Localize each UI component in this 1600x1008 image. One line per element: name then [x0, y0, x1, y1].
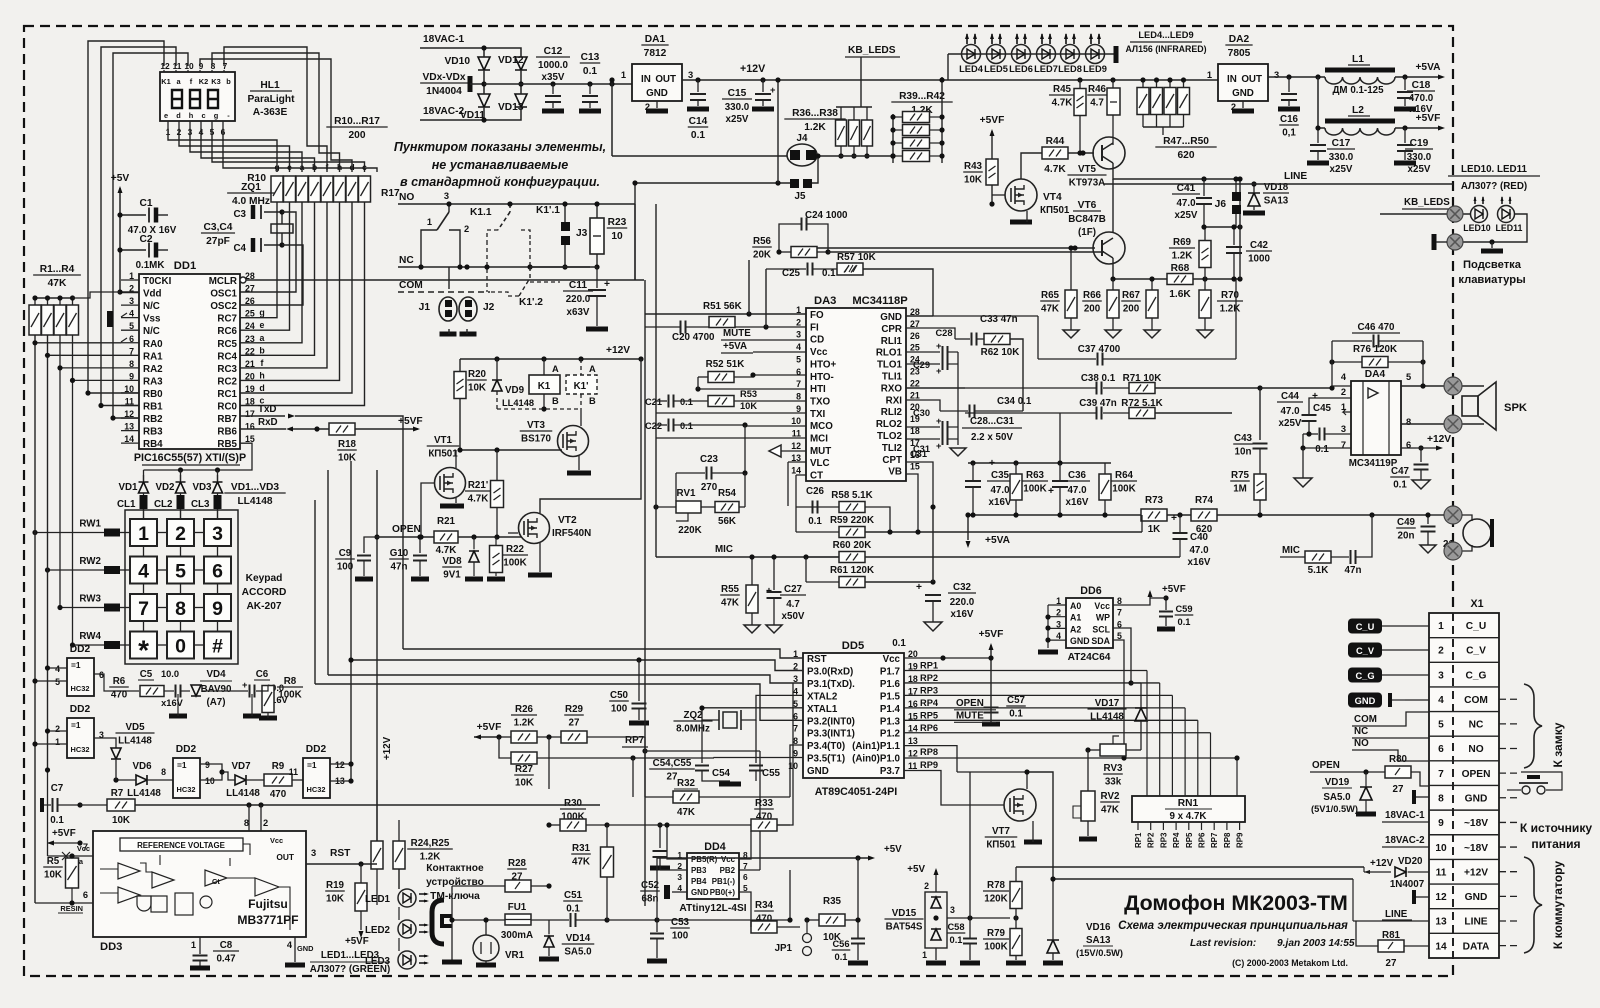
svg-text:10K: 10K	[515, 778, 533, 789]
svg-text:P3.3(INT1): P3.3(INT1)	[807, 729, 855, 740]
svg-text:24: 24	[245, 321, 255, 331]
svg-text:OPEN: OPEN	[392, 524, 421, 535]
svg-text:ZQ1: ZQ1	[241, 182, 261, 193]
svg-text:RW3: RW3	[79, 594, 101, 605]
svg-text:G10: G10	[390, 548, 409, 559]
wires small parts row	[202, 690, 248, 692]
wire R74 right to MIC line	[1217, 514, 1430, 516]
wire R61 line down-right to DA4 (556 to C44)	[1180, 556, 1232, 558]
svg-text:C13: C13	[581, 52, 600, 63]
svg-text:47n: 47n	[1345, 565, 1362, 576]
svg-text:VD2: VD2	[155, 482, 175, 493]
svg-text:LED10. LED11: LED10. LED11	[1461, 164, 1527, 175]
svg-text:VD7: VD7	[231, 761, 251, 772]
svg-text:17: 17	[245, 409, 255, 419]
svg-text:100K: 100K	[503, 558, 526, 569]
svg-text:=1: =1	[71, 720, 81, 730]
svg-text:RC0: RC0	[217, 402, 237, 413]
svg-text:0.1: 0.1	[950, 935, 963, 945]
svg-text:1: 1	[1438, 621, 1444, 632]
wire CT down	[796, 474, 806, 476]
wire TXI line	[656, 412, 806, 414]
svg-text:0.1: 0.1	[566, 904, 580, 915]
svg-text:ACCORD: ACCORD	[242, 587, 287, 598]
svg-text:8: 8	[796, 391, 801, 401]
svg-text:RV2: RV2	[1101, 791, 1120, 802]
X1 pin8 GND bar	[1412, 790, 1416, 804]
svg-text:R6: R6	[113, 676, 126, 687]
svg-text:C_V: C_V	[1466, 646, 1486, 657]
svg-text:LL4148: LL4148	[237, 496, 272, 507]
capacitor C48 47n	[1351, 550, 1356, 564]
svg-text:VR1: VR1	[505, 950, 525, 961]
svg-text:C28...C31: C28...C31	[970, 416, 1015, 427]
svg-text:GND: GND	[297, 944, 314, 953]
svg-text:15: 15	[910, 462, 920, 472]
RxD arrow	[286, 427, 293, 432]
svg-text:Схема электрическая принципиал: Схема электрическая принципиальная	[1118, 919, 1348, 932]
wire VT3 source to ground	[578, 456, 580, 470]
svg-text:C58: C58	[947, 922, 964, 932]
svg-text:c: c	[201, 111, 205, 120]
svg-text:22: 22	[245, 346, 255, 356]
wire DD5 P3.4 left	[790, 745, 803, 797]
svg-text:C24 1000: C24 1000	[805, 210, 848, 221]
svg-text:R52 51K: R52 51K	[706, 359, 745, 370]
svg-text:100: 100	[611, 704, 628, 715]
svg-text:330.0: 330.0	[725, 102, 750, 113]
svg-text:LINE: LINE	[1284, 171, 1307, 182]
keypad key 7	[130, 594, 157, 621]
svg-text:ДМ 0.1-125: ДМ 0.1-125	[1332, 85, 1384, 96]
diode VD20 1N4007	[1395, 867, 1406, 877]
ground backlight	[1489, 239, 1494, 244]
svg-text:Vcc: Vcc	[270, 836, 283, 845]
svg-text:АЛ156 (INFRARED): АЛ156 (INFRARED)	[1125, 44, 1206, 54]
svg-text:RP9: RP9	[920, 760, 938, 770]
TxD arrow	[288, 414, 295, 419]
svg-text:27pF: 27pF	[206, 236, 230, 247]
keypad key 5	[167, 557, 194, 584]
svg-text:4: 4	[1438, 695, 1444, 706]
svg-text:R8: R8	[284, 676, 297, 687]
bus wire D	[315, 684, 803, 720]
svg-text:(A7): (A7)	[206, 697, 225, 708]
svg-text:+12V: +12V	[606, 345, 630, 356]
svg-text:+5VF: +5VF	[979, 629, 1004, 640]
tag GND	[1348, 693, 1382, 708]
svg-text:J1: J1	[419, 302, 431, 313]
svg-text:25: 25	[910, 343, 920, 353]
svg-text:AK-207: AK-207	[246, 601, 281, 612]
svg-text:R67: R67	[1122, 290, 1141, 301]
svg-text:3: 3	[1274, 70, 1279, 80]
svg-text:SA13: SA13	[1264, 196, 1289, 207]
tag C_G	[1348, 668, 1382, 683]
wire LED11 loop	[1463, 214, 1527, 242]
svg-text:7: 7	[1438, 769, 1444, 780]
svg-text:R18: R18	[338, 439, 357, 450]
svg-text:100K: 100K	[1023, 484, 1046, 495]
bus wire A	[403, 649, 803, 658]
svg-text:T0CKI: T0CKI	[143, 276, 172, 287]
varistor VR1	[473, 935, 499, 961]
svg-text:9 x 4.7K: 9 x 4.7K	[1169, 811, 1206, 822]
svg-text:2: 2	[55, 724, 60, 734]
wire display pin9 right loop	[200, 59, 352, 172]
svg-text:27: 27	[245, 284, 255, 294]
svg-text:12: 12	[335, 760, 345, 770]
svg-text:C18: C18	[1412, 80, 1431, 91]
svg-text:Контактное: Контактное	[426, 863, 484, 874]
svg-text:FU1: FU1	[508, 902, 527, 913]
push button	[1522, 786, 1530, 794]
svg-text:MCLR: MCLR	[209, 276, 237, 287]
svg-text:C17: C17	[1332, 138, 1351, 149]
svg-text:TLO2: TLO2	[877, 431, 903, 442]
resistor R18 10K	[329, 423, 355, 435]
svg-text:VD8: VD8	[442, 556, 462, 567]
svg-text:4: 4	[55, 664, 60, 674]
svg-text:R43: R43	[964, 161, 983, 172]
svg-text:BS170: BS170	[521, 434, 552, 445]
wire HTI line	[389, 388, 656, 390]
wire left vert to DD3 Vcc	[80, 843, 93, 856]
svg-text:h: h	[189, 111, 194, 120]
svg-text:LINE: LINE	[1464, 917, 1487, 928]
svg-text:300mA: 300mA	[501, 930, 533, 941]
svg-text:RP3: RP3	[1159, 832, 1168, 848]
svg-text:RW1: RW1	[79, 519, 101, 530]
svg-text:C29: C29	[913, 360, 930, 370]
svg-text:R54: R54	[718, 488, 737, 499]
svg-text:10: 10	[1435, 843, 1447, 854]
svg-text:MUTE: MUTE	[723, 328, 751, 339]
tag C_U	[1348, 619, 1382, 634]
svg-text:R65: R65	[1041, 290, 1060, 301]
wire VT2 drain to +12V	[540, 359, 641, 513]
svg-text:RP3: RP3	[920, 685, 938, 695]
svg-text:3: 3	[950, 905, 955, 915]
wire C51 to DD4 right	[607, 919, 657, 921]
svg-text:XTAL2: XTAL2	[807, 691, 838, 702]
svg-text:1: 1	[55, 737, 60, 747]
svg-text:g: g	[259, 308, 264, 318]
svg-text:R64: R64	[1115, 470, 1134, 481]
svg-text:IRF540N: IRF540N	[552, 528, 591, 539]
wire R31 to C51 line	[606, 877, 608, 920]
svg-text:Vcc: Vcc	[1094, 601, 1110, 611]
wire display pin11 to left bus	[101, 47, 176, 406]
wire C39 line corner	[1231, 413, 1233, 440]
svg-text:C30: C30	[913, 408, 930, 418]
svg-text:+5VF: +5VF	[477, 722, 502, 733]
svg-text:CPR: CPR	[881, 324, 902, 335]
wire +5VA to Vcc	[753, 351, 806, 353]
svg-text:14: 14	[1435, 941, 1447, 952]
svg-text:N/C: N/C	[143, 301, 160, 312]
svg-text:LED4: LED4	[959, 64, 984, 74]
svg-text:b: b	[226, 77, 231, 86]
svg-text:RB0: RB0	[143, 389, 163, 400]
svg-text:SCL: SCL	[1092, 624, 1110, 634]
svg-text:DD3: DD3	[100, 941, 122, 953]
svg-text:WP: WP	[1096, 613, 1110, 623]
svg-text:P3.1(TxD).: P3.1(TxD).	[807, 679, 855, 690]
svg-text:(1F): (1F)	[1078, 227, 1096, 238]
wire XTAL1 to ZQ2	[702, 708, 803, 720]
svg-text:0.1MK: 0.1MK	[136, 260, 165, 271]
svg-text:C20 4700: C20 4700	[672, 332, 715, 343]
svg-text:5: 5	[1438, 720, 1444, 731]
svg-text:RP6: RP6	[1198, 832, 1207, 848]
svg-text:3: 3	[677, 872, 682, 882]
svg-text:R31: R31	[572, 843, 591, 854]
svg-text:АЛ307? (GREEN): АЛ307? (GREEN)	[310, 964, 391, 975]
wire KB_LEDS to LED10	[1380, 213, 1470, 215]
svg-text:9.jan 2003 14:55: 9.jan 2003 14:55	[1277, 938, 1355, 949]
svg-text:VD17: VD17	[1095, 698, 1120, 709]
svg-text:x16V: x16V	[1066, 497, 1089, 508]
wire MIC preamp to R73 via 557	[1179, 548, 1181, 557]
svg-text:AT24C64: AT24C64	[1068, 652, 1111, 663]
svg-text:x16V: x16V	[951, 609, 974, 620]
microphone MIC	[1463, 519, 1491, 547]
svg-text:R26: R26	[515, 704, 534, 715]
svg-text:R60 20K: R60 20K	[833, 540, 872, 551]
svg-text:PB3: PB3	[691, 866, 707, 875]
svg-text:RN1: RN1	[1178, 798, 1199, 809]
TM contact symbol	[432, 900, 444, 944]
svg-text:R59 220K: R59 220K	[830, 515, 874, 526]
svg-text:не устанавливаемые: не устанавливаемые	[432, 158, 569, 172]
svg-text:RP4: RP4	[920, 698, 939, 708]
svg-text:10K: 10K	[964, 175, 982, 186]
svg-text:MB3771PF: MB3771PF	[237, 913, 298, 927]
svg-text:C47: C47	[1391, 466, 1410, 477]
svg-text:LED8: LED8	[1058, 64, 1082, 74]
resistor R24	[371, 841, 383, 869]
wire VT6 base line	[806, 247, 1095, 249]
svg-text:GND: GND	[807, 766, 829, 777]
svg-text:C49: C49	[1397, 517, 1416, 528]
svg-text:R56: R56	[753, 236, 772, 247]
svg-text:LED10: LED10	[1463, 223, 1490, 233]
wire OSC1 OSC2 to crystal	[240, 212, 296, 292]
svg-text:10K: 10K	[468, 383, 486, 394]
svg-text:8: 8	[1406, 417, 1411, 427]
svg-text:1N4007: 1N4007	[1390, 879, 1425, 890]
svg-text:C_U: C_U	[1356, 622, 1375, 632]
svg-text:GND: GND	[1232, 88, 1254, 99]
wire RXI right C34	[906, 400, 940, 411]
svg-text:C45: C45	[1313, 403, 1332, 414]
svg-text:R44: R44	[1046, 136, 1065, 147]
svg-text:C51: C51	[564, 890, 583, 901]
svg-text:RB1: RB1	[143, 402, 163, 413]
wire RP4 OPEN down? vertical 1124	[1123, 696, 1125, 758]
svg-text:LED1: LED1	[365, 894, 391, 905]
wire NC node	[484, 264, 489, 269]
svg-text:RST: RST	[330, 848, 351, 859]
svg-text:+5V: +5V	[884, 844, 902, 855]
svg-text:11: 11	[792, 429, 801, 439]
svg-text:RW2: RW2	[79, 556, 101, 567]
svg-text:+: +	[989, 458, 995, 469]
wire DD4 pin1	[667, 825, 687, 859]
svg-text:P1.5: P1.5	[880, 691, 901, 702]
svg-text:0.1: 0.1	[691, 130, 705, 141]
svg-text:BC847B: BC847B	[1068, 214, 1106, 225]
svg-text:47.0: 47.0	[1067, 485, 1087, 496]
svg-text:GND: GND	[1465, 892, 1488, 903]
svg-text:f: f	[261, 358, 264, 368]
svg-text:VD6: VD6	[132, 761, 152, 772]
svg-text:C16: C16	[1280, 114, 1299, 125]
svg-text:x16V: x16V	[1188, 557, 1211, 568]
svg-text:R19: R19	[326, 880, 345, 891]
DD1 Vss black mark	[107, 311, 113, 327]
keypad key 1	[130, 519, 157, 546]
wire C7 to R7	[80, 804, 107, 806]
svg-text:ATtiny12L-4SI: ATtiny12L-4SI	[679, 903, 746, 914]
svg-text:IN: IN	[641, 74, 651, 85]
svg-text:VT7: VT7	[992, 826, 1011, 837]
wires keypad rows to left verticals	[35, 532, 78, 534]
svg-text:1: 1	[191, 940, 196, 950]
svg-text:RB4: RB4	[143, 439, 163, 450]
svg-text:OPEN: OPEN	[1312, 760, 1340, 771]
svg-text:b: b	[312, 162, 317, 172]
svg-text:R23: R23	[608, 217, 627, 228]
svg-text:47.0: 47.0	[990, 485, 1010, 496]
svg-text:DA3: DA3	[814, 295, 836, 307]
svg-text:CD: CD	[810, 335, 824, 346]
svg-text:ParaLight: ParaLight	[248, 94, 296, 105]
svg-text:Vdd: Vdd	[143, 289, 162, 300]
svg-text:200: 200	[349, 130, 366, 141]
wire MCLR long right	[246, 279, 644, 281]
wire DD4 GND black mark	[664, 885, 670, 899]
svg-text:PIC16C55(57) XTI/(S)P: PIC16C55(57) XTI/(S)P	[134, 452, 246, 464]
svg-text:АЛ307? (RED): АЛ307? (RED)	[1461, 181, 1527, 192]
svg-text:R73: R73	[1145, 495, 1164, 506]
svg-text:K1.1: K1.1	[470, 207, 492, 218]
wire MCI line	[656, 437, 806, 439]
wire DA4 pin8 to SPK	[1401, 423, 1484, 425]
svg-text:+12V: +12V	[740, 63, 766, 75]
svg-text:K1'.2: K1'.2	[519, 297, 543, 308]
relay coil K1	[529, 375, 560, 394]
svg-text:VT1: VT1	[434, 435, 453, 446]
left vertical bus wires	[34, 335, 36, 903]
LED LED7	[1037, 45, 1056, 64]
svg-text:КП501: КП501	[986, 840, 1016, 851]
svg-text:R27: R27	[515, 764, 534, 775]
svg-text:в стандартной конфигурации.: в стандартной конфигурации.	[400, 175, 600, 189]
keypad key *	[130, 632, 157, 659]
svg-text:SPK: SPK	[1504, 402, 1527, 414]
svg-text:B: B	[552, 396, 559, 406]
bridge wires	[483, 48, 485, 57]
svg-text:10.0: 10.0	[161, 669, 179, 679]
svg-text:C12: C12	[544, 46, 563, 57]
svg-text:LED9: LED9	[1083, 64, 1107, 74]
svg-text:DD2: DD2	[176, 744, 197, 755]
svg-text:J4: J4	[797, 133, 808, 144]
svg-text:2: 2	[1438, 646, 1444, 657]
tag C_V	[1348, 643, 1382, 658]
svg-text:OUT: OUT	[276, 852, 295, 862]
wire R69 top to line 227	[1204, 227, 1206, 240]
svg-text:120K: 120K	[984, 894, 1007, 905]
LED LED5	[987, 45, 1006, 64]
svg-text:18VAC-2: 18VAC-2	[423, 106, 464, 117]
svg-text:+5VF: +5VF	[1416, 113, 1441, 124]
svg-text:+5VF: +5VF	[345, 936, 369, 947]
wire OPEN line	[377, 536, 434, 538]
wire VT3 gate line	[458, 449, 562, 451]
pad ground backlight	[1447, 234, 1463, 250]
svg-text:R22: R22	[506, 544, 525, 555]
svg-text:0: 0	[175, 636, 186, 658]
wire P3.7 to DD4 region	[789, 797, 791, 853]
svg-text:LED5: LED5	[984, 64, 1008, 74]
svg-text:11: 11	[289, 767, 298, 777]
svg-text:Подсветка: Подсветка	[1463, 259, 1522, 271]
svg-text:=1: =1	[177, 760, 187, 770]
svg-text:2: 2	[263, 818, 268, 828]
svg-text:KB_LEDS: KB_LEDS	[848, 45, 896, 56]
svg-text:RP8: RP8	[920, 747, 938, 757]
svg-text:470: 470	[111, 690, 128, 701]
svg-text:COM: COM	[399, 280, 423, 291]
svg-text:10K: 10K	[338, 453, 356, 464]
svg-text:2: 2	[796, 317, 801, 327]
svg-text:R36...R38: R36...R38	[792, 108, 838, 119]
svg-text:x63V: x63V	[567, 307, 590, 318]
pad SPK+	[1444, 377, 1462, 395]
svg-text:9: 9	[1438, 818, 1444, 829]
brace K zamku	[1524, 684, 1542, 768]
svg-text:DD2: DD2	[306, 744, 327, 755]
LED LED10	[1471, 206, 1488, 223]
wire NO row corner down	[634, 204, 636, 280]
wire RB5 down	[144, 443, 253, 470]
relay coil K1' dashed	[566, 375, 597, 394]
svg-text:CPT: CPT	[882, 455, 902, 466]
svg-text:HC32: HC32	[71, 745, 90, 754]
+5VA down arrow	[967, 515, 969, 540]
svg-text:IN: IN	[1227, 74, 1237, 85]
svg-text:+: +	[936, 341, 942, 351]
svg-text:R21': R21'	[468, 480, 488, 491]
svg-text:47.0: 47.0	[1176, 198, 1196, 209]
svg-text:OUT: OUT	[655, 74, 676, 85]
DD3 internal logic	[137, 896, 151, 911]
svg-text:VD16: VD16	[1086, 922, 1111, 933]
svg-text:C28: C28	[935, 328, 952, 338]
svg-text:5: 5	[55, 677, 60, 687]
svg-text:DA4: DA4	[1365, 369, 1386, 380]
svg-text:RP1: RP1	[920, 661, 938, 671]
svg-text:RC7: RC7	[217, 314, 237, 325]
svg-text:7: 7	[743, 861, 748, 871]
svg-text:RC3: RC3	[217, 364, 237, 375]
svg-text:C55: C55	[762, 768, 781, 779]
wire R52 loop	[697, 377, 699, 389]
svg-text:C42: C42	[1250, 240, 1269, 251]
